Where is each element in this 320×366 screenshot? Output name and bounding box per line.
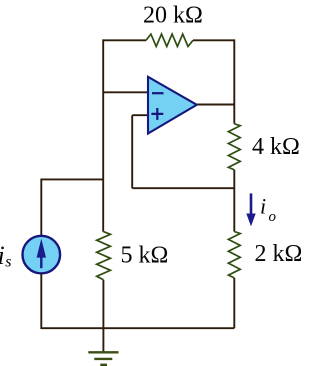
op-amp plus symbol	[151, 108, 163, 120]
resistor 4 k (vertical zigzag)	[228, 124, 240, 170]
wire inverting input	[103, 91, 148, 93]
ground bar 3	[100, 364, 107, 366]
wire right vertical top	[233, 39, 235, 123]
ground bar 1	[88, 351, 118, 353]
wire source branch vertical lower	[40, 273, 42, 329]
resistor 5 k (vertical zigzag)	[97, 232, 111, 280]
resistor 20 k (horizontal zigzag)	[146, 34, 193, 46]
wire source branch vertical upper	[40, 179, 42, 237]
ground bar 2	[94, 358, 112, 360]
current source arrow	[37, 239, 46, 269]
wire op-amp output	[197, 104, 235, 106]
op-amp minus symbol	[152, 92, 164, 94]
svg-text:4 kΩ: 4 kΩ	[252, 134, 300, 160]
svg-text:2 kΩ: 2 kΩ	[255, 241, 302, 267]
resistor 2 k (vertical zigzag)	[228, 232, 240, 278]
wire feedback horizontal to right branch	[132, 187, 234, 189]
wire right vertical middle	[233, 170, 235, 232]
arrow i_o (current direction)	[246, 193, 255, 226]
op-amp U1 triangle	[148, 77, 197, 134]
wire left vertical (top corner down to 5k resistor)	[102, 39, 104, 231]
svg-text:i: i	[0, 241, 5, 270]
svg-text:20 kΩ: 20 kΩ	[143, 3, 203, 29]
wire right vertical bottom	[233, 278, 235, 328]
svg-text:s: s	[5, 254, 11, 271]
current source i_s circle	[23, 236, 61, 274]
wire top feedback left segment	[103, 39, 146, 41]
svg-text:o: o	[269, 209, 277, 225]
wire noninverting input	[132, 114, 148, 116]
wire 5k lower segment	[102, 280, 104, 328]
wire bottom rail	[41, 327, 234, 329]
ground stem	[102, 328, 104, 352]
wire feedback vertical from + input	[131, 115, 133, 188]
svg-text:i: i	[260, 194, 266, 219]
wire source branch top horizontal	[41, 178, 103, 180]
svg-text:5 kΩ: 5 kΩ	[121, 242, 169, 268]
wire top feedback right segment	[193, 39, 234, 41]
